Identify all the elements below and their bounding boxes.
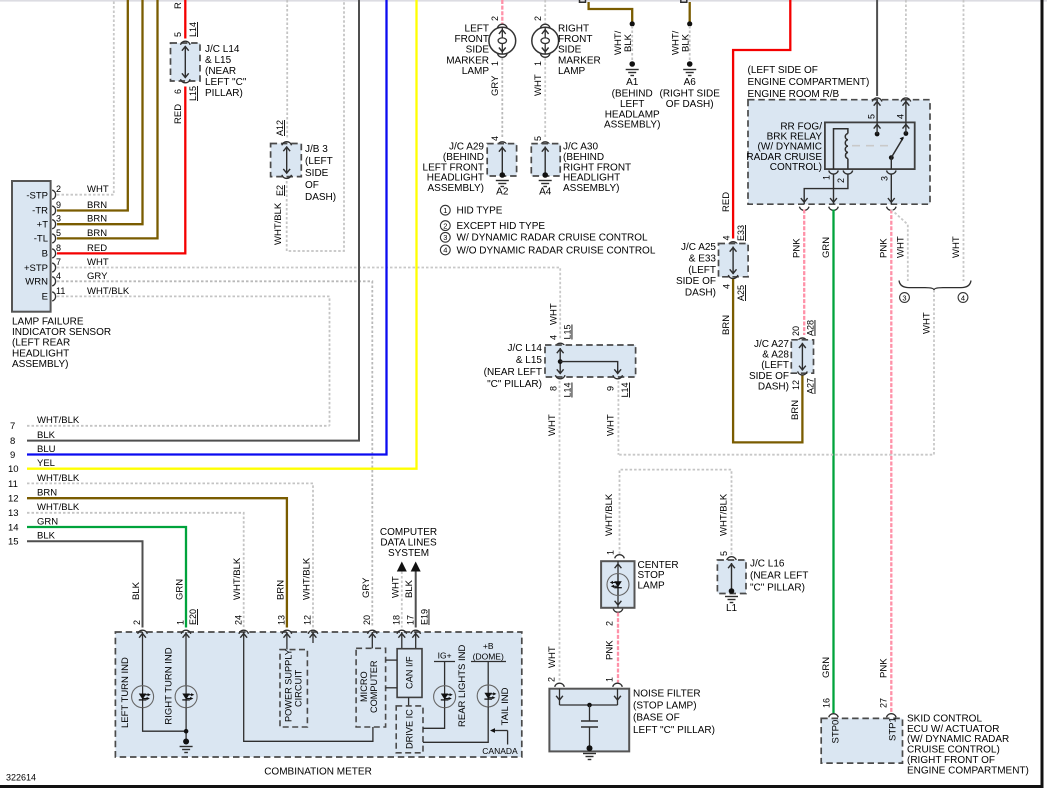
wire BRN J/C A25 to J/C A27 [721,279,802,442]
meter pin arcs [138,630,421,634]
svg-text:2: 2 [836,178,846,183]
svg-text:MARKER: MARKER [558,55,601,66]
relay bottom pin arcs [822,171,897,184]
svg-text:& L15: & L15 [516,355,543,366]
svg-text:IG+: IG+ [438,651,452,661]
sensor pin labels [56,184,130,297]
svg-text:4: 4 [56,271,61,281]
relay pin 1 exit wire [830,175,837,205]
svg-text:LEFT "C": LEFT "C" [205,77,247,88]
svg-text:"C" PILLAR): "C" PILLAR) [750,583,805,594]
svg-text:5: 5 [719,551,729,556]
relay contact pin 5 [874,122,881,136]
svg-text:SIDE: SIDE [558,45,582,56]
svg-text:PILLAR): PILLAR) [205,88,243,99]
node option 4 marker [958,293,968,303]
svg-text:DASH): DASH) [758,381,789,392]
svg-text:+STP: +STP [24,263,48,274]
svg-text:HID TYPE: HID TYPE [457,206,503,217]
svg-text:LEFT FRONT: LEFT FRONT [423,162,484,173]
svg-text:L14: L14 [188,22,198,37]
combination meter caption [264,767,372,778]
wire BRN top to ground node A6 [689,2,691,22]
meter pin labels [132,609,429,625]
svg-text:WRN: WRN [25,277,48,288]
svg-text:12: 12 [303,615,313,625]
svg-text:27: 27 [878,698,888,708]
wire RED top to J/C L14 pin 5 [184,0,186,39]
wire vertical labels above meter [131,557,372,600]
svg-text:DRIVE IC: DRIVE IC [405,709,415,749]
svg-text:ASSEMBLY): ASSEMBLY) [604,120,661,131]
svg-text:GRY: GRY [361,577,372,598]
wire WHT sensor -STP to top [57,0,114,195]
wire BRN top to ground node A1 [589,2,633,22]
svg-text:J/C A25: J/C A25 [681,242,716,253]
sensor pin arcs [52,190,55,301]
svg-text:-TR: -TR [32,206,48,217]
junction J/C A27 & A28 [791,320,816,394]
svg-text:(NEAR: (NEAR [205,66,236,77]
svg-text:& A28: & A28 [762,350,789,361]
svg-text:CANADA: CANADA [482,746,518,756]
svg-text:NOISE FILTER: NOISE FILTER [633,689,701,700]
svg-text:(RIGHT FRONT OF: (RIGHT FRONT OF [907,755,995,766]
arrow to computer data lines WHT [390,562,407,628]
svg-text:LEFT "C" PILLAR): LEFT "C" PILLAR) [633,725,715,736]
wire PNK relay pin 3 to skid control STP1 [879,210,892,714]
svg-text:HEADLAMP: HEADLAMP [605,109,660,120]
svg-text:BRN: BRN [790,400,801,420]
svg-text:ENGINE ROOM R/B: ENGINE ROOM R/B [748,89,840,100]
J/C L14-L15 top pin arcs [181,41,191,83]
svg-text:GRN: GRN [175,579,186,600]
svg-text:ENGINE COMPARTMENT): ENGINE COMPARTMENT) [748,77,870,88]
svg-text:WHT: WHT [87,184,109,195]
arrow to computer data lines BLK [404,562,421,628]
svg-text:L1: L1 [726,603,738,614]
svg-text:BLU: BLU [37,444,56,455]
svg-text:WHT/BLK: WHT/BLK [604,493,615,536]
page right border [1041,0,1044,788]
wire WHT brace to junction with J/C L14 pin 9 [618,290,934,455]
svg-text:13: 13 [8,508,19,519]
wire BRN row 12 to meter pin 13 [27,498,287,627]
svg-text:HEADLIGHT: HEADLIGHT [563,173,620,184]
wire BRN sensor +T to top [57,0,143,224]
J/C L14 & L15 center caption [484,343,543,390]
relay actuation dashed link [852,145,894,147]
svg-text:WHT/BLK: WHT/BLK [232,557,243,600]
svg-text:REAR LIGHTS IND: REAR LIGHTS IND [457,645,468,727]
svg-text:BRN: BRN [275,580,286,600]
svg-text:5: 5 [173,32,183,37]
relay exit pin arcs [799,207,896,211]
relay pin 2 exit wire [801,175,848,205]
svg-text:1: 1 [605,677,615,682]
svg-text:SIDE: SIDE [466,45,490,56]
svg-text:11: 11 [56,286,65,296]
power supply circuit block [280,643,307,727]
svg-text:J/B 3: J/B 3 [305,144,328,155]
relay entry pin arcs [872,98,910,102]
left front side marker lamp caption [446,24,489,77]
turn indicator ground net [143,708,193,753]
J/C A27 & A28 caption [749,339,789,392]
CAN I/F block [397,643,422,697]
svg-text:WHT/BLK: WHT/BLK [273,202,284,245]
svg-text:OF: OF [305,180,319,191]
svg-text:4: 4 [895,114,905,119]
svg-text:2: 2 [490,16,500,21]
junction J/B 3 (left side of dash) [271,144,302,177]
svg-text:L14: L14 [620,382,630,397]
svg-text:BLK: BLK [404,579,415,598]
row labels 7-15 [8,415,80,548]
svg-text:STP0: STP0 [831,720,842,744]
wire BLK row 8 vertical [27,0,359,441]
junction J/C L14 & L15 (near left C pillar) top [171,43,201,81]
svg-text:L15: L15 [188,86,198,101]
center stop lamp [601,550,634,626]
wire WHT/BLK row 13 to meter pin 24 [27,513,244,628]
J/C A29 caption [423,142,485,195]
svg-text:SIDE: SIDE [305,168,329,179]
svg-text:8: 8 [10,436,15,447]
letter fragment above right ground wire [681,0,687,2]
option brace [899,281,971,291]
svg-text:OF DASH): OF DASH) [666,99,714,110]
junction J/C A25 & E33 [719,225,749,301]
wire BRN sensor -TR to top [57,0,128,211]
svg-text:13: 13 [277,615,287,625]
right front side marker lamp [532,16,559,66]
meter pin entry arrows [139,632,419,643]
svg-text:LAMP: LAMP [638,580,666,591]
svg-text:20: 20 [791,326,801,336]
svg-text:MICRO: MICRO [359,671,369,702]
junction J/C A29 with ground A2 [487,136,516,198]
svg-text:3: 3 [880,176,890,181]
svg-text:CONTROL): CONTROL) [770,162,822,173]
svg-text:4: 4 [722,235,732,240]
wire PNK top to left front side marker lamp [501,0,503,24]
svg-text:LAMP: LAMP [558,66,586,77]
svg-text:WHT: WHT [922,312,933,334]
svg-text:LEFT: LEFT [620,99,644,110]
svg-text:BLK: BLK [37,531,56,542]
svg-text:SIDE OF: SIDE OF [749,371,789,382]
svg-text:RED: RED [173,104,184,124]
svg-text:(NEAR LEFT: (NEAR LEFT [484,367,542,378]
svg-text:9: 9 [56,200,61,210]
svg-text:PNK: PNK [879,238,890,258]
svg-text:J/C A30: J/C A30 [563,142,598,153]
svg-text:PNK: PNK [792,238,803,258]
letter fragment above left ground wire [580,0,586,2]
svg-text:DASH): DASH) [685,288,716,299]
svg-text:WHT/BLK: WHT/BLK [719,493,730,536]
wire PNK relay pin 2 to J/C A28 pin 20 [792,210,805,336]
svg-text:CIRCUIT: CIRCUIT [294,669,304,707]
svg-text:7: 7 [10,421,15,432]
svg-text:15: 15 [8,537,19,548]
svg-text:"C" PILLAR): "C" PILLAR) [487,379,542,390]
wire PNK center stop lamp to noise filter pin 1 [605,613,619,683]
svg-text:HEADLIGHT: HEADLIGHT [12,348,69,359]
junction J/C L16 with ground L1 [717,551,746,614]
svg-text:& L15: & L15 [205,55,232,66]
svg-text:L14: L14 [563,382,573,397]
svg-text:PNK: PNK [605,640,616,660]
svg-text:J/C A29: J/C A29 [449,142,484,153]
CANADA marker [482,728,518,756]
svg-text:EXCEPT HID TYPE: EXCEPT HID TYPE [457,221,546,232]
svg-text:5: 5 [56,228,61,238]
svg-text:MARKER: MARKER [446,55,489,66]
lamp failure indicator sensor caption [12,317,111,370]
diagram number [6,773,36,783]
svg-text:(LEFT: (LEFT [305,156,333,167]
svg-text:5: 5 [533,136,543,141]
J/B 3 caption [305,144,336,203]
relay pin 3 exit wire [888,175,895,205]
left turn indicator [120,643,154,728]
wire WHT/BLK sensor E joins row 7 [57,296,330,425]
ground A1 [626,61,639,88]
wire WHT J/C L14 pin 9 down [606,381,619,455]
J/C A30 caption [563,142,631,195]
svg-text:L15: L15 [563,324,573,339]
svg-text:1: 1 [176,620,186,625]
svg-text:(STOP LAMP): (STOP LAMP) [633,701,697,712]
wire RED top to J/C E33 [721,0,790,239]
relay RR FOG/BRK body [825,122,915,169]
svg-text:CAN I/F: CAN I/F [405,656,415,689]
svg-text:16: 16 [821,698,831,708]
svg-text:WHT/BLK: WHT/BLK [37,502,80,513]
svg-text:WHT: WHT [606,414,617,436]
svg-text:1: 1 [822,175,832,180]
engine room R/B caption [748,65,870,100]
svg-text:WHT: WHT [549,303,560,325]
svg-text:2: 2 [533,16,543,21]
J/B 3 pin arcs [282,142,292,179]
J/C L16 caption [750,559,808,594]
svg-text:J/C L14: J/C L14 [508,343,543,354]
svg-text:8: 8 [549,386,559,391]
svg-text:SYSTEM: SYSTEM [388,548,429,559]
svg-text:LEFT TURN IND: LEFT TURN IND [120,657,131,728]
svg-text:1: 1 [443,206,447,215]
relay contact pin 4 [903,122,910,136]
combination meter box [115,632,521,757]
svg-text:WHT: WHT [547,414,558,436]
svg-text:2: 2 [547,677,557,682]
svg-text:17: 17 [405,615,415,625]
junction node A1 top [630,21,635,26]
svg-text:COMPUTER: COMPUTER [380,527,437,538]
svg-text:3: 3 [902,293,906,302]
svg-text:STP1: STP1 [888,717,899,741]
svg-text:LAMP FAILURE: LAMP FAILURE [12,317,84,328]
wire WHT top to right front side marker lamp [544,0,546,24]
noise filter ground [583,745,596,759]
svg-text:A28: A28 [806,320,816,336]
svg-text:E2: E2 [275,185,285,196]
svg-text:(BEHIND: (BEHIND [612,89,653,100]
svg-text:4: 4 [722,284,732,289]
wire WHT/BLK J/B 3 E2 loop to top [287,0,344,251]
svg-text:10: 10 [8,464,19,475]
svg-text:RED: RED [721,192,732,212]
svg-text:RIGHT TURN IND: RIGHT TURN IND [164,647,175,724]
svg-text:FRONT: FRONT [558,34,592,45]
svg-text:SKID CONTROL: SKID CONTROL [907,714,982,725]
junction J/C A30 with ground A4 [531,136,560,198]
node option 3 marker [900,293,910,303]
svg-text:A6: A6 [684,77,697,88]
svg-text:W/O DYNAMIC RADAR CRUISE CONTR: W/O DYNAMIC RADAR CRUISE CONTROL [457,245,656,256]
wire BLK row 15 to meter pin 2 [27,541,143,627]
wire RED sensor B to J/C L15 pin 6 [57,87,185,254]
svg-text:E33: E33 [736,225,746,241]
noise filter body [547,677,630,751]
svg-text:5: 5 [867,114,877,119]
wire BRN sensor -TL to top [57,0,158,238]
ground A1 caption [604,89,661,131]
svg-text:WHT/BLK: WHT/BLK [37,415,80,426]
svg-text:GRN: GRN [821,237,832,258]
svg-text:9: 9 [606,386,616,391]
note 2 except HID type [440,221,545,232]
wire WHT/BLK center stop lamp to J/C L16 [604,470,732,556]
svg-text:(BEHIND: (BEHIND [443,152,484,163]
svg-text:14: 14 [8,522,19,533]
svg-text:A2: A2 [496,187,509,198]
wire GRN row 14 to meter pin 1 [27,527,186,628]
engine room R/B box [748,100,930,205]
svg-text:(W/ DYNAMIC RADAR: (W/ DYNAMIC RADAR [907,734,1009,745]
svg-text:A27: A27 [806,378,816,394]
svg-text:WHT/BLK: WHT/BLK [87,286,130,297]
wire WHT/BLK row 7 [27,425,330,427]
svg-text:ECU W/ ACTUATOR: ECU W/ ACTUATOR [907,724,999,735]
skid control ECU body [821,698,902,763]
svg-text:E: E [42,292,48,303]
svg-text:PNK: PNK [879,658,890,678]
svg-text:GRN: GRN [821,657,832,678]
svg-text:BLK: BLK [623,33,634,52]
lamp failure indicator sensor body [12,181,51,312]
note 3 w/ dynamic radar cruise control [440,232,648,243]
svg-text:GRY: GRY [490,75,501,96]
svg-text:WHT: WHT [547,646,558,668]
relay switch arm [889,137,904,170]
svg-text:2: 2 [605,621,615,626]
svg-text:WHT: WHT [87,257,109,268]
svg-text:W/ DYNAMIC RADAR CRUISE CONTRO: W/ DYNAMIC RADAR CRUISE CONTROL [457,233,649,244]
svg-text:2: 2 [132,620,142,625]
right turn indicator [164,643,198,725]
svg-text:3: 3 [443,233,447,242]
svg-text:6: 6 [173,89,183,94]
wire GRY lamp to J/C A29 [490,58,502,138]
svg-text:(BASE OF: (BASE OF [633,713,680,724]
svg-text:1: 1 [533,61,543,66]
svg-text:J/C L16: J/C L16 [750,559,785,570]
relay caption RR FOG/BRK RELAY [746,122,822,173]
wire GRY sensor WRN to combination meter pin 20 [57,281,372,627]
svg-text:LAMP: LAMP [462,66,490,77]
relay coil [834,129,848,169]
svg-text:322614: 322614 [6,773,36,783]
wire WHT relay pin 3 branch to option brace [891,210,908,282]
J/C L14 center labels [549,303,631,397]
svg-text:24: 24 [233,615,243,625]
svg-text:A12: A12 [275,120,285,136]
note 4 w/o dynamic radar cruise control [440,245,655,256]
svg-text:WHT/BLK: WHT/BLK [302,557,313,600]
J/B 3 labels [273,120,285,245]
drive IC block [396,706,423,753]
svg-text:(RIGHT SIDE: (RIGHT SIDE [660,89,721,100]
svg-text:HEADLIGHT: HEADLIGHT [427,173,484,184]
IG+ node [434,651,455,686]
svg-text:-TL: -TL [34,234,48,245]
svg-text:A4: A4 [539,187,552,198]
svg-text:BLK: BLK [681,33,692,52]
svg-text:WHT: WHT [951,236,962,258]
wire WHT top to relay pin 4 [905,0,907,96]
svg-text:A1: A1 [626,77,639,88]
svg-text:(DOME): (DOME) [473,652,504,662]
svg-text:1: 1 [490,61,500,66]
wire WHT/BLK to ground A1 [613,26,634,62]
svg-text:INDICATOR SENSOR: INDICATOR SENSOR [12,327,111,338]
svg-text:9: 9 [10,450,15,461]
svg-text:(LEFT: (LEFT [688,265,716,276]
svg-text:18: 18 [392,615,402,625]
svg-text:DATA LINES: DATA LINES [380,538,437,549]
svg-text:J/C A27: J/C A27 [754,339,789,350]
svg-text:RIGHT: RIGHT [558,24,589,35]
svg-text:RIGHT FRONT: RIGHT FRONT [563,162,631,173]
svg-text:4: 4 [490,136,500,141]
svg-text:COMBINATION METER: COMBINATION METER [264,767,372,778]
svg-text:BRN: BRN [721,315,732,335]
svg-text:GRY: GRY [87,271,108,282]
svg-text:E19: E19 [420,609,430,625]
svg-text:TAIL IND: TAIL IND [500,687,511,725]
svg-text:FRONT: FRONT [455,34,489,45]
svg-text:BRN: BRN [37,488,57,499]
micro computer to CAN I/F links [386,660,398,688]
svg-text:ASSEMBLY): ASSEMBLY) [12,359,69,370]
svg-text:2: 2 [56,184,61,194]
svg-text:(LEFT REAR: (LEFT REAR [12,338,70,349]
svg-text:(LEFT SIDE OF: (LEFT SIDE OF [748,65,818,76]
svg-text:+B: +B [483,641,494,651]
wire BLK top to relay pin 5 [876,0,878,96]
svg-text:WHT: WHT [390,576,401,598]
wire WHT sensor +STP to J/C L14-L15 pin 4 [57,268,560,341]
svg-text:ASSEMBLY): ASSEMBLY) [563,183,620,194]
svg-text:WHT: WHT [895,236,906,258]
top edge artifact strip [0,0,1047,2]
rear lights indicator [423,645,468,729]
svg-text:2: 2 [443,221,447,230]
